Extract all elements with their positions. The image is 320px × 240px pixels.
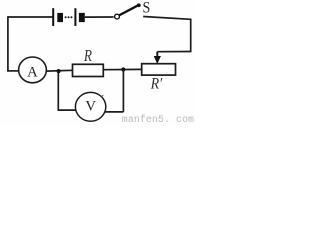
wire left vertical [7,16,9,71]
battery cell 2 negative plate [79,13,85,22]
wire to rheostat wiper [157,51,191,53]
battery dots (more cells) [65,16,73,18]
rheostat R' body [142,64,176,75]
wire voltmeter branch right horizontal [105,111,124,113]
wire into ammeter [7,70,19,72]
wire voltmeter branch left horizontal [58,109,77,111]
wire right vertical [190,19,192,52]
wire voltmeter branch right vertical [122,70,124,112]
svg-text:V: V [85,98,96,114]
node junction dot left [57,69,61,73]
wire switch to top-right corner [143,17,191,20]
rheostat wiper arrow stem [156,52,158,58]
svg-text:S: S [142,0,150,17]
rheostat wiper arrow head [154,56,161,64]
switch S pivot [115,14,120,19]
voltmeter V body [75,92,105,121]
small tick near voltmeter [101,95,103,97]
svg-text:R′: R′ [150,76,163,93]
svg-text:A: A [27,65,38,81]
battery cell 2 positive plate [74,8,76,26]
battery cell 1 positive plate [52,8,54,26]
wire ammeter to resistor [46,69,72,72]
svg-text:R: R [83,47,93,66]
battery cell 1 negative plate [57,13,63,22]
switch S lever tip [137,3,141,7]
switch S lever [120,5,139,15]
svg-text:manfen5. com: manfen5. com [122,114,194,125]
node junction dot right [121,67,125,71]
wire resistor to rheostat [103,68,141,70]
resistor R body [73,64,104,76]
ammeter A body [19,57,47,83]
wire top-left horizontal [8,16,53,18]
wire battery to switch [85,16,114,18]
wire voltmeter branch left vertical [57,71,59,110]
